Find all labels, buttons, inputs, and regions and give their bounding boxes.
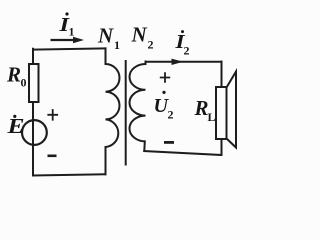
transformer secondary winding N2 — [130, 64, 146, 141]
source E circle — [22, 120, 47, 145]
wire: primary loop left (through source) — [32, 49, 34, 176]
svg-text:1: 1 — [69, 25, 75, 39]
polarity + (source) — [47, 109, 58, 121]
polarity - (secondary) — [164, 141, 174, 144]
resistor R0 body — [29, 64, 39, 102]
wire: secondary loop bottom — [144, 151, 221, 155]
speaker load RL cone — [227, 72, 237, 148]
svg-text:2: 2 — [184, 44, 190, 58]
wire: secondary loop right top segment — [221, 62, 223, 88]
transformer primary winding N1 — [106, 64, 120, 147]
wire: secondary loop top — [146, 61, 222, 63]
svg-text:2: 2 — [168, 108, 174, 122]
svg-text:2: 2 — [148, 38, 154, 52]
current arrow I1 — [51, 39, 75, 41]
polarity - (source) — [48, 155, 57, 158]
transformer core — [125, 60, 127, 166]
svg-text:N: N — [131, 23, 148, 47]
wire: secondary coil top stub — [145, 62, 147, 65]
polarity + (secondary) — [160, 72, 170, 82]
wire: primary loop top — [33, 48, 106, 49]
svg-text:1: 1 — [114, 38, 120, 52]
svg-text:N: N — [97, 24, 114, 48]
speaker load RL body — [216, 87, 227, 139]
current arrow I2 (on wire) — [172, 59, 184, 65]
wire: secondary loop right bottom segment — [221, 139, 223, 155]
svg-text:0: 0 — [21, 76, 27, 90]
svg-text:R: R — [6, 63, 21, 87]
wire: primary loop bottom — [33, 174, 106, 175]
wire: primary coil bottom stub — [105, 147, 107, 174]
svg-text:R: R — [194, 96, 209, 120]
wire: primary coil top stub — [105, 48, 107, 64]
svg-text:L: L — [208, 110, 216, 124]
wire: secondary coil bottom stub — [143, 141, 146, 151]
